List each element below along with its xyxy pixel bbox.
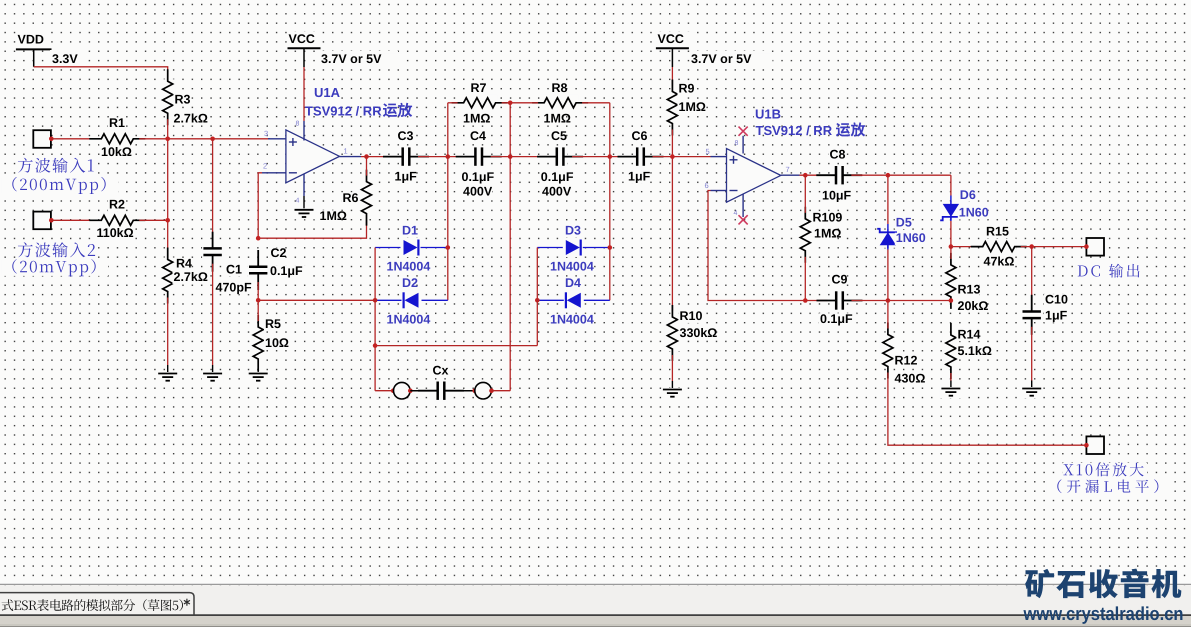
- svg-text:C6: C6: [632, 129, 648, 143]
- label U1B: [754, 109, 777, 122]
- svg-text:1μF: 1μF: [1045, 309, 1068, 323]
- label R109: [812, 212, 842, 224]
- svg-text:400V: 400V: [463, 184, 493, 198]
- svg-text:1N4004: 1N4004: [387, 259, 431, 273]
- no-connect X top: [739, 127, 748, 136]
- svg-text:1MΩ: 1MΩ: [814, 227, 841, 241]
- diode D5 schottky: [876, 230, 900, 248]
- svg-text:1N60: 1N60: [959, 206, 989, 220]
- wire signal bus seg2: [418, 156, 467, 158]
- wire feedback bottom: [258, 220, 366, 239]
- wire C8 to D6 corner: [851, 174, 951, 176]
- label input1 line2: [1, 177, 118, 193]
- junction port2 pin: [49, 218, 54, 223]
- wire C1 branch: [212, 139, 214, 240]
- junction U1A out: [364, 154, 369, 159]
- svg-text:3.7V or 5V: 3.7V or 5V: [321, 52, 382, 66]
- svg-text:R3: R3: [175, 93, 191, 107]
- svg-text:0.1μF: 0.1μF: [541, 170, 574, 184]
- capacitor C3: [399, 146, 413, 167]
- label D4 value: [549, 314, 594, 326]
- tab bar bottom line: [0, 614, 1191, 616]
- wire Cx left feed: [375, 390, 393, 392]
- label C9 value 0.1uF: [819, 313, 857, 325]
- svg-text:430Ω: 430Ω: [895, 371, 926, 385]
- svg-text:3: 3: [264, 129, 268, 138]
- wire node vertical R3-R1-R2-R4: [167, 119, 169, 253]
- resistor R14: [943, 333, 959, 369]
- junction node A1: [165, 137, 170, 142]
- svg-text:R5: R5: [265, 317, 281, 331]
- wire VCC2 to R9: [671, 67, 673, 86]
- port X10 output: [1086, 436, 1104, 454]
- wire Cx left link: [410, 390, 434, 392]
- capacitor C4: [472, 146, 486, 167]
- svg-text:R12: R12: [895, 353, 918, 367]
- wire node B vertical: [509, 103, 511, 391]
- svg-text:TSV912 / RR: TSV912 / RR: [756, 123, 833, 138]
- wire R14 to ground: [950, 373, 952, 381]
- label C10 value 1uF: [1044, 310, 1067, 322]
- svg-text:400V: 400V: [542, 185, 572, 199]
- wire D4 row: [537, 299, 610, 301]
- resistor R109: [797, 217, 813, 253]
- resistor R9: [664, 90, 680, 126]
- junction D5 top: [886, 173, 891, 178]
- wire R12 to X10 port: [888, 373, 1087, 446]
- capacitor Cx: [434, 380, 448, 401]
- svg-text:4: 4: [734, 210, 738, 217]
- svg-text:2.7kΩ: 2.7kΩ: [174, 270, 208, 284]
- wire R5 stub: [257, 300, 259, 321]
- svg-text:R15: R15: [986, 224, 1009, 238]
- port DC output: [1086, 238, 1104, 256]
- canvas bottom border: [0, 583, 1191, 585]
- svg-text:5.1kΩ: 5.1kΩ: [958, 344, 992, 358]
- label C8: [829, 149, 844, 161]
- terminal Cx left: [394, 382, 411, 399]
- label R8 value 1M: [543, 113, 566, 125]
- svg-text:3.3V: 3.3V: [52, 52, 78, 66]
- svg-text:2.7kΩ: 2.7kΩ: [174, 112, 208, 126]
- wire R7 left: [448, 102, 458, 104]
- junction port1 pin: [49, 137, 54, 142]
- capacitor C5: [553, 146, 567, 167]
- junction node A2: [165, 218, 170, 223]
- svg-text:7: 7: [786, 165, 790, 174]
- power VCC symbol 2: [656, 47, 689, 49]
- label 3.7V or 5V 1: [320, 51, 398, 65]
- wire C10 to ground: [1031, 327, 1033, 381]
- svg-text:8: 8: [296, 121, 300, 128]
- ground under R5: [247, 372, 269, 383]
- junction C2 top: [256, 236, 261, 241]
- label C1: [225, 264, 240, 276]
- wire R5 to ground: [257, 365, 259, 374]
- label R6: [342, 192, 357, 204]
- junction C6 U1B node: [670, 154, 675, 159]
- resistor R13: [943, 263, 959, 299]
- power VDD symbol: [16, 48, 52, 50]
- junction C10 top: [1029, 244, 1034, 249]
- label C8 value 10uF: [821, 190, 851, 202]
- wire U1A to ground: [303, 196, 305, 210]
- wire C2 to R5 node: [257, 282, 259, 300]
- wire U1B minus loop: [708, 191, 828, 301]
- svg-text:D6: D6: [960, 188, 976, 202]
- ground under R14: [940, 387, 962, 398]
- wire R15 left stub: [951, 246, 977, 248]
- junction R109 top: [803, 173, 808, 178]
- svg-text:R14: R14: [958, 327, 981, 341]
- label C4 value 0.1uF: [461, 172, 499, 184]
- label 3.3V value: [50, 50, 84, 64]
- label X10 line2: [1047, 480, 1173, 495]
- port input 1: [33, 130, 51, 148]
- label 3.7V or 5V 2: [690, 51, 768, 65]
- label input2 line2: [1, 260, 108, 276]
- svg-text:Cx: Cx: [433, 363, 449, 377]
- junction D1 right: [446, 245, 451, 250]
- resistor R2: [99, 212, 135, 228]
- svg-text:www.crystalradio.cn: www.crystalradio.cn: [1023, 603, 1184, 624]
- resistor R5: [250, 325, 266, 361]
- label R7 value 1M: [462, 113, 485, 125]
- svg-text:330kΩ: 330kΩ: [680, 326, 718, 340]
- wire signal bus seg1: [361, 156, 394, 158]
- svg-text:C9: C9: [832, 272, 848, 286]
- svg-text:47kΩ: 47kΩ: [984, 255, 1015, 269]
- capacitor C6: [634, 146, 648, 167]
- label C9: [831, 274, 846, 286]
- label R3 value 2.7k: [173, 113, 211, 125]
- svg-text:C8: C8: [830, 147, 846, 161]
- label C2: [270, 248, 285, 260]
- wire Cx right feed: [492, 390, 511, 392]
- junction DC port pin: [1084, 244, 1089, 249]
- label C6: [631, 130, 646, 142]
- label R4 value 2.7k: [173, 272, 211, 284]
- junction D2 left: [373, 298, 378, 303]
- wire C10 branch: [1031, 247, 1033, 303]
- svg-text:6: 6: [705, 181, 709, 190]
- svg-text:2: 2: [263, 162, 267, 171]
- svg-text:D5: D5: [896, 215, 912, 229]
- svg-text:3.7V or 5V: 3.7V or 5V: [691, 52, 752, 66]
- capacitor C10: [1021, 308, 1042, 322]
- junction D3 right: [608, 245, 613, 250]
- svg-text:1N60: 1N60: [896, 231, 926, 245]
- wire R2 to node: [139, 219, 167, 221]
- wire Cx right link: [447, 390, 474, 392]
- label R8: [551, 83, 566, 95]
- svg-text:D1: D1: [402, 224, 418, 238]
- wire R109 top stub: [804, 175, 806, 213]
- resistor R12: [880, 333, 896, 369]
- label C4: [469, 130, 484, 142]
- svg-text:D4: D4: [565, 276, 581, 290]
- junction R5 node: [256, 298, 261, 303]
- wire D3D4 left vertical: [536, 248, 538, 346]
- ground under R10: [661, 388, 683, 399]
- label R9 value 1M: [678, 102, 701, 114]
- junction Cx right pin a: [472, 388, 477, 393]
- svg-text:20kΩ: 20kΩ: [958, 299, 989, 313]
- junction R7R8: [508, 101, 513, 106]
- wire D3 row: [537, 247, 610, 249]
- label U1A: [313, 87, 336, 100]
- svg-text:0.1μF: 0.1μF: [462, 170, 495, 184]
- label R12: [894, 355, 917, 367]
- resistor R10: [664, 315, 680, 351]
- svg-text:R6: R6: [343, 191, 359, 205]
- svg-text:U1A: U1A: [314, 85, 341, 100]
- wire R1 to U1A plus: [139, 138, 270, 140]
- wire R5 bus: [258, 299, 375, 301]
- wire signal bus seg3: [491, 156, 548, 158]
- wire D6 to R15 node: [950, 217, 952, 221]
- svg-text:R109: R109: [813, 210, 843, 224]
- wire VCC to U1A: [303, 67, 305, 121]
- svg-text:R8: R8: [552, 81, 568, 95]
- label C5: [550, 131, 565, 143]
- capacitor C2: [248, 263, 269, 277]
- junction C1 tap: [210, 137, 215, 142]
- label C5 value 0.1uF: [540, 171, 578, 183]
- label R14: [957, 329, 980, 341]
- svg-text:1N4004: 1N4004: [550, 312, 594, 326]
- wire port1 to R1: [51, 138, 95, 140]
- resistor R7: [462, 95, 498, 111]
- label Cx: [432, 365, 447, 377]
- diode D6 schottky: [939, 201, 963, 219]
- svg-text:C2: C2: [271, 246, 287, 260]
- svg-text:0.1μF: 0.1μF: [820, 312, 853, 326]
- wire node A vertical: [447, 103, 449, 300]
- capacitor C9: [833, 290, 847, 311]
- label R10 value 330k: [679, 328, 717, 340]
- resistor R4: [160, 258, 176, 294]
- wire signal bus seg5: [653, 156, 711, 158]
- tab label: [2, 599, 183, 611]
- label C10: [1044, 294, 1067, 306]
- junction R13R14: [949, 298, 954, 303]
- ground under C10: [1021, 387, 1043, 398]
- svg-text:1N4004: 1N4004: [550, 259, 594, 273]
- label D1: [401, 225, 416, 237]
- label R1: [108, 118, 123, 130]
- port input 2: [33, 212, 51, 230]
- wire D6 drop: [950, 175, 952, 195]
- wire signal bus seg4: [572, 156, 628, 158]
- pin U1B gnd 4: [742, 194, 744, 217]
- label R2: [108, 199, 123, 211]
- label R4: [175, 258, 190, 270]
- label C3 value 1uF: [394, 171, 417, 183]
- label DC output: [1076, 264, 1144, 280]
- wire R4 to ground: [167, 298, 169, 366]
- op-amp U1A: [286, 130, 340, 183]
- label R9: [678, 83, 693, 95]
- label R15: [985, 226, 1008, 238]
- wire D5 branch bottom: [887, 245, 889, 249]
- wire R13 top stub: [950, 247, 952, 259]
- label D4: [564, 278, 579, 290]
- resistor R1: [99, 131, 135, 147]
- label R5 value 10: [264, 338, 287, 350]
- svg-text:R1: R1: [109, 116, 125, 130]
- svg-text:C10: C10: [1045, 293, 1068, 307]
- label input2 line1: [16, 243, 98, 260]
- diode D4: [564, 291, 584, 310]
- watermark main: [1025, 569, 1181, 599]
- label R1 value 10k: [100, 147, 130, 159]
- wire port2 to R2: [51, 219, 95, 221]
- label C3: [397, 130, 412, 142]
- svg-text:R10: R10: [680, 309, 703, 323]
- capacitor C1: [202, 245, 223, 259]
- status strip: [0, 616, 1191, 627]
- label D2 value: [386, 314, 431, 326]
- svg-text:1MΩ: 1MΩ: [679, 100, 706, 114]
- wire D1D2 left vertical: [374, 248, 376, 391]
- svg-text:10μF: 10μF: [822, 189, 852, 203]
- svg-text:10Ω: 10Ω: [265, 336, 289, 350]
- ground under R4: [157, 372, 179, 383]
- svg-text:VDD: VDD: [18, 33, 44, 47]
- svg-text:4: 4: [296, 198, 300, 205]
- svg-text:C3: C3: [398, 129, 414, 143]
- junction X10 port pin: [1084, 443, 1089, 448]
- pin U1A power 8: [303, 121, 305, 141]
- wire VDD to R3: [34, 67, 168, 76]
- label R7: [470, 83, 485, 95]
- svg-text:1N4004: 1N4004: [387, 312, 431, 326]
- capacitor C8: [832, 165, 846, 186]
- junction node B bus: [508, 154, 513, 159]
- svg-text:C1: C1: [226, 263, 242, 277]
- wire R10 to ground: [671, 355, 673, 381]
- svg-text:TSV912 / RR: TSV912 / RR: [305, 103, 382, 118]
- wire bottom bus: [375, 345, 537, 347]
- svg-text:C5: C5: [551, 129, 567, 143]
- svg-text:R2: R2: [109, 198, 125, 212]
- svg-text:470pF: 470pF: [216, 280, 252, 294]
- svg-text:110kΩ: 110kΩ: [97, 226, 134, 240]
- wire D5 branch top: [887, 175, 889, 224]
- svg-text:10kΩ: 10kΩ: [101, 145, 132, 159]
- pin U1B output stub: [781, 174, 800, 176]
- wire U1B out to C8: [800, 174, 828, 176]
- svg-text:1MΩ: 1MΩ: [463, 111, 490, 125]
- ground under U1A: [293, 208, 315, 219]
- power VCC symbol 1: [288, 47, 321, 49]
- svg-text:8: 8: [735, 140, 739, 147]
- label C6 value 1uF: [627, 171, 650, 183]
- label R5: [264, 319, 279, 331]
- junction D4 left: [535, 298, 540, 303]
- junction D5 bottom: [886, 298, 891, 303]
- junction Cx left pin b: [408, 388, 413, 393]
- wire R109 bottom stub: [804, 257, 806, 301]
- svg-text:VCC: VCC: [658, 32, 684, 46]
- svg-text:5: 5: [706, 147, 710, 156]
- wire R8 right: [582, 102, 610, 104]
- junction bottom bus: [373, 343, 378, 348]
- junction Cx right pin b: [489, 388, 494, 393]
- label D3 value: [549, 261, 594, 273]
- wire U1A minus loop: [258, 173, 262, 238]
- wire R6 top: [366, 157, 368, 176]
- junction node A bus: [446, 154, 451, 159]
- svg-text:U1B: U1B: [755, 106, 781, 121]
- wire R9 to bus: [671, 130, 673, 312]
- label D2: [401, 278, 416, 290]
- sheet tab: [0, 593, 194, 615]
- wire D2 row: [375, 299, 448, 301]
- svg-text:R7: R7: [471, 81, 487, 95]
- wire R12 top stub: [887, 301, 889, 329]
- wire D1 row: [375, 247, 448, 249]
- ground under C1: [202, 372, 224, 383]
- label R2 value 110k: [96, 228, 134, 240]
- label VCC 2: [656, 32, 690, 45]
- label C4 value 400V: [462, 186, 492, 198]
- wire C1 to ground: [212, 264, 214, 365]
- svg-text:R4: R4: [176, 257, 192, 271]
- svg-text:R9: R9: [679, 81, 695, 95]
- wire R15 to DC port: [1021, 246, 1087, 248]
- wire C9 to R13 node: [852, 300, 951, 302]
- label R12 value 430: [894, 373, 924, 385]
- diode D2: [402, 291, 422, 310]
- label C1 value 470pF: [215, 282, 253, 294]
- label R10: [679, 311, 702, 323]
- label input1 line1: [16, 158, 96, 175]
- diode D3: [563, 238, 583, 257]
- svg-text:D3: D3: [565, 224, 581, 238]
- svg-text:0.1μF: 0.1μF: [270, 264, 303, 278]
- op-amp U1B: [727, 149, 781, 203]
- label C2 value 0.1uF: [269, 266, 307, 278]
- resistor R8: [542, 95, 578, 111]
- junction node C bus: [608, 154, 613, 159]
- pin U1B power 8: [742, 136, 744, 154]
- label VDD: [16, 31, 50, 45]
- diode D1: [401, 238, 421, 257]
- wire R7-R8 link: [502, 102, 538, 104]
- label VCC 1: [287, 32, 321, 45]
- label D6: [959, 189, 974, 201]
- junction Cx left pin a: [391, 388, 396, 393]
- junction R15 node: [949, 244, 954, 249]
- svg-text:C4: C4: [470, 129, 486, 143]
- label D5 value: [895, 233, 925, 245]
- svg-text:VCC: VCC: [289, 32, 315, 46]
- label R13 value 20k: [957, 300, 987, 312]
- label D5: [895, 217, 910, 229]
- pin U1A gnd 4: [303, 174, 305, 197]
- resistor R6: [359, 180, 375, 216]
- label R6 value 1M: [319, 210, 342, 222]
- svg-text:D2: D2: [402, 276, 418, 290]
- wire node C vertical: [609, 103, 611, 300]
- label X10 line1: [1062, 463, 1147, 479]
- svg-text:R13: R13: [958, 283, 981, 297]
- label C5 value 400V: [541, 186, 571, 198]
- svg-text:1μF: 1μF: [628, 169, 651, 183]
- resistor R3: [160, 79, 176, 115]
